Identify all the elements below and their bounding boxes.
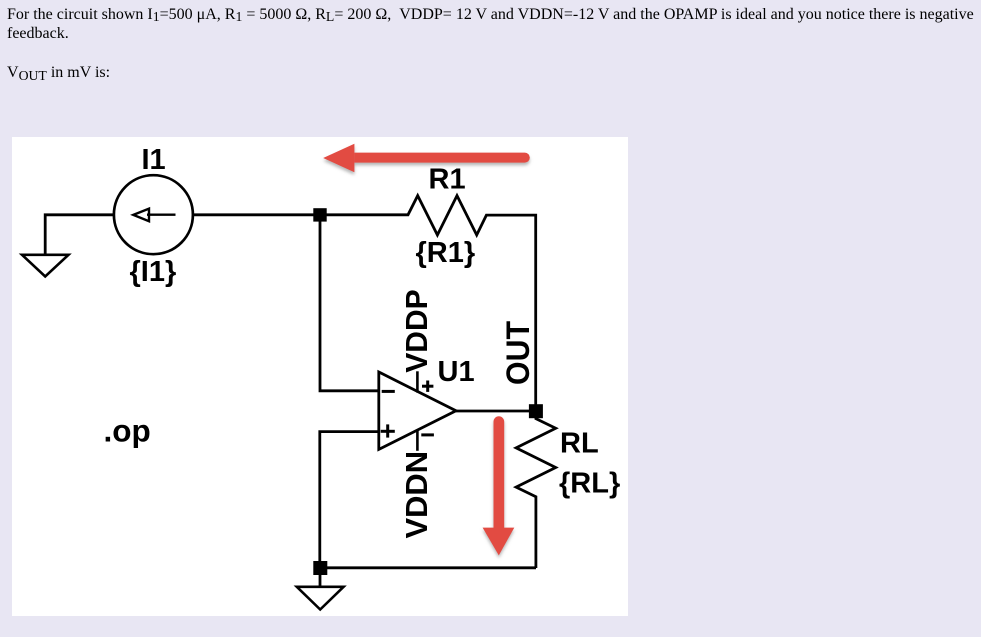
junction node OUT xyxy=(529,404,543,418)
resistor RL zigzag xyxy=(516,417,556,568)
svg-text:OUT: OUT xyxy=(500,321,536,385)
red annotation arrow (current direction, pointing left over R1) xyxy=(323,144,530,173)
resistor R1 zigzag and wire to right xyxy=(326,196,536,405)
wire from left ground to current source xyxy=(45,215,114,254)
op-amp non-inverting input plus marker xyxy=(381,430,395,433)
svg-text:RL: RL xyxy=(560,427,599,459)
minus marker near V- pin xyxy=(421,433,434,436)
wire from current source to node IN xyxy=(193,213,314,216)
junction node IN (top) xyxy=(313,208,326,221)
junction node 0 (bottom) xyxy=(313,561,327,575)
svg-text:I1: I1 xyxy=(142,144,166,176)
svg-text:R1: R1 xyxy=(429,164,466,196)
op-amp output wire xyxy=(456,410,530,413)
svg-text:U1: U1 xyxy=(438,356,475,388)
op-amp U1 triangle xyxy=(379,372,456,449)
svg-text:{RL}: {RL} xyxy=(559,468,620,500)
op-amp V- pin xyxy=(416,430,419,451)
svg-text:.op: .op xyxy=(104,412,151,448)
wire node IN down to inverting input xyxy=(320,215,379,391)
wire non-inverting input down to bottom rail xyxy=(320,432,379,568)
svg-text:{I1}: {I1} xyxy=(130,256,177,288)
current source I1 circle xyxy=(114,175,193,254)
ground GND2 stem (bottom) xyxy=(319,574,322,587)
ground GND2 triangle xyxy=(297,587,344,610)
svg-text:VDDN: VDDN xyxy=(399,451,434,539)
op-amp V+ pin xyxy=(416,371,419,392)
current source arrow (pointing left) xyxy=(147,214,176,216)
ground GND1 (left) xyxy=(22,255,69,277)
op-amp inverting input minus marker xyxy=(382,390,395,393)
svg-text:{R1}: {R1} xyxy=(416,237,476,269)
red annotation arrow (load current, pointing down through RL) xyxy=(483,416,515,555)
plus marker near V+ pin xyxy=(422,385,433,388)
svg-text:VDDP: VDDP xyxy=(399,289,434,373)
bottom rail wire xyxy=(320,566,536,569)
